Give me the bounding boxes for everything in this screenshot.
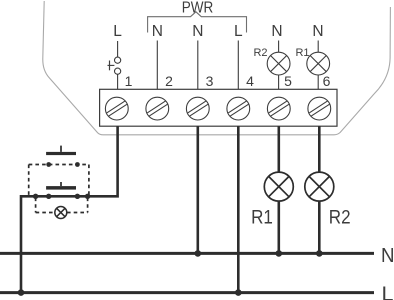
svg-text:PWR: PWR	[182, 0, 214, 17]
terminal screw 5	[267, 97, 290, 120]
device housing outline	[43, 1, 391, 135]
L line	[0, 291, 374, 294]
dashed lamp loop left	[35, 198, 37, 213]
dashed box left	[28, 165, 30, 196]
svg-text:5: 5	[284, 73, 292, 89]
dashed lamp loop bottom right	[67, 212, 88, 214]
terminal block body	[100, 89, 337, 126]
svg-text:L: L	[234, 23, 243, 40]
wire terminal 4 to L line	[237, 126, 240, 292]
junction T3-N	[195, 250, 202, 257]
wire terminal 5 to lamp R1	[277, 126, 280, 172]
push-button S2 stem	[60, 182, 62, 186]
svg-text:6: 6	[323, 73, 331, 89]
svg-text:L: L	[113, 23, 122, 40]
junction T4-L	[235, 289, 242, 296]
N line	[0, 252, 374, 255]
svg-text:4: 4	[246, 73, 254, 89]
wire terminal 1 to switch bus and L line	[21, 126, 118, 292]
terminal screw 1	[105, 97, 128, 120]
svg-text:3: 3	[206, 73, 214, 89]
junction R1-N	[276, 250, 283, 257]
lamp R2	[305, 172, 334, 201]
wire N to indicator lamp R2	[278, 41, 280, 53]
switch S contacts	[115, 57, 121, 63]
indicator lamp R1	[307, 52, 330, 75]
wire L to terminal 4	[237, 41, 239, 90]
push-button S1 contact right	[75, 162, 80, 167]
wire terminal 3 to N line	[197, 126, 200, 253]
terminal screw 2	[146, 97, 169, 120]
junction R2-N	[316, 250, 323, 257]
svg-text:R2: R2	[329, 206, 351, 228]
wire indicator lamp R1 to terminal 6	[317, 75, 319, 89]
wire N to terminal 3	[197, 41, 199, 90]
wire indicator lamp R2 to terminal 5	[278, 75, 280, 89]
svg-text:1: 1	[125, 73, 133, 89]
switch S actuator	[109, 61, 111, 71]
dashed box top	[29, 164, 89, 166]
wire lamp R1 to N line	[277, 201, 280, 254]
svg-text:N: N	[271, 23, 282, 40]
svg-text:L: L	[382, 283, 394, 300]
push-button S1 stem	[60, 146, 62, 152]
wire N to indicator lamp R1	[317, 41, 319, 53]
push-button S2 bar	[46, 186, 76, 190]
svg-text:R2: R2	[253, 47, 267, 59]
dashed box right	[88, 165, 90, 196]
svg-text:N: N	[152, 23, 163, 40]
backlight lamp	[55, 207, 67, 219]
dashed lamp loop right	[87, 198, 89, 213]
junction bus S2 left	[46, 194, 51, 199]
junction bus dashed-right	[85, 194, 90, 199]
wire lamp R2 to N line	[318, 201, 321, 254]
svg-text:R1: R1	[251, 206, 273, 228]
lamp R1	[264, 172, 293, 201]
junction bus dashed-left	[33, 194, 38, 199]
svg-text:R1: R1	[295, 47, 309, 59]
svg-text:N: N	[312, 23, 323, 40]
push-button S1 bar	[46, 152, 76, 155]
svg-text:N: N	[381, 244, 394, 267]
terminal screw 6	[308, 97, 331, 120]
junction bus S2 right	[75, 194, 80, 199]
wire L to switch S	[117, 41, 119, 57]
junction switch-L	[18, 289, 25, 296]
wire switch S to terminal 1	[117, 74, 119, 89]
terminal screw 4	[227, 97, 250, 120]
PWR bracket	[148, 12, 247, 33]
dashed lamp loop bottom left	[36, 212, 55, 214]
wire terminal 6 to lamp R2	[318, 126, 321, 172]
svg-text:N: N	[192, 23, 203, 40]
indicator lamp R2	[267, 52, 290, 75]
terminal screw 3	[186, 97, 209, 120]
wire N to terminal 2	[156, 41, 158, 90]
svg-text:2: 2	[165, 73, 173, 89]
push-button S1 contact left	[46, 162, 51, 167]
